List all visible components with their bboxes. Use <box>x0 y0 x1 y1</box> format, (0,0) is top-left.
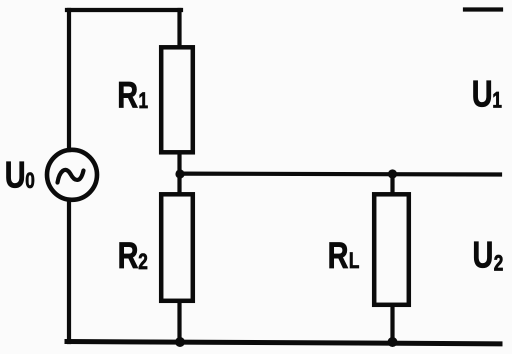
source U0 <box>47 150 97 200</box>
svg-text:1: 1 <box>492 88 502 113</box>
svg-text:0: 0 <box>25 169 35 194</box>
node junction R1/R2 mid <box>175 169 184 178</box>
svg-text:R: R <box>117 75 138 116</box>
svg-text:2: 2 <box>494 251 504 276</box>
resistor RL <box>374 194 409 304</box>
node junction R2 bottom <box>175 337 185 347</box>
resistor R2 <box>161 194 193 300</box>
wire middle horizontal <box>179 172 500 177</box>
svg-text:1: 1 <box>139 89 149 114</box>
wire left vertical upper <box>67 10 71 150</box>
wire top horizontal <box>67 8 181 12</box>
source U0 sine symbol <box>58 170 84 183</box>
svg-text:2: 2 <box>138 250 148 275</box>
svg-text:R: R <box>118 236 139 277</box>
node junction RL bottom <box>388 337 398 347</box>
wire fragment top right <box>465 7 501 11</box>
node junction RL top <box>388 169 397 178</box>
wire R1 bottom lead <box>177 154 181 173</box>
wire left vertical lower <box>67 200 71 342</box>
svg-text:U: U <box>472 74 493 115</box>
svg-text:U: U <box>473 235 494 276</box>
wire R2 bottom lead <box>177 302 181 341</box>
wire RL top lead <box>390 175 394 193</box>
wire RL bottom lead <box>390 306 394 341</box>
svg-text:R: R <box>328 236 349 277</box>
wire R2 top lead <box>177 175 181 193</box>
svg-text:L: L <box>349 249 359 274</box>
wire R1 top lead <box>177 10 181 46</box>
resistor R1 <box>161 47 193 152</box>
svg-text:U: U <box>5 155 26 196</box>
wire bottom horizontal <box>67 342 500 344</box>
